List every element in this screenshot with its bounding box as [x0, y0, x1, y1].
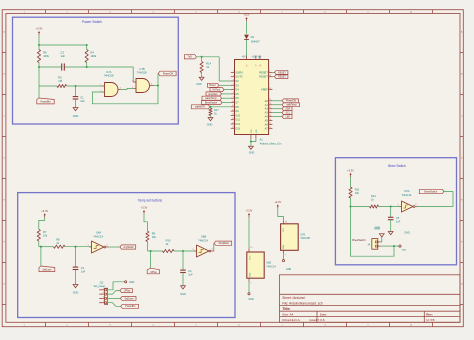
- svg-text:C1: C1: [80, 96, 84, 100]
- svg-text:23: 23: [269, 115, 271, 117]
- svg-text:Date:: Date:: [320, 312, 327, 316]
- svg-text:GND: GND: [249, 152, 255, 155]
- svg-text:D4: D4: [235, 88, 239, 92]
- svg-text:4: 4: [211, 248, 212, 250]
- svg-text:D1/TX: D1/TX: [235, 75, 243, 79]
- svg-text:waterTemp: waterTemp: [205, 97, 217, 100]
- svg-text:U7E: U7E: [300, 232, 305, 236]
- svg-text:5: 5: [233, 79, 234, 81]
- svg-text:14: 14: [285, 221, 287, 223]
- svg-text:D9: D9: [235, 109, 239, 113]
- svg-text:VCC: VCC: [283, 227, 285, 232]
- svg-text:SwDown: SwDown: [42, 270, 52, 272]
- svg-text:KiCad E.D.A.: KiCad E.D.A.: [282, 318, 300, 322]
- svg-text:GND: GND: [256, 129, 258, 134]
- svg-text:U6A: U6A: [96, 231, 101, 235]
- svg-text:R8: R8: [56, 238, 60, 242]
- svg-text:TxD: TxD: [187, 56, 192, 59]
- svg-text:Reset: Reset: [209, 84, 215, 87]
- svg-text:R4: R4: [90, 51, 94, 55]
- svg-text:+3.3V: +3.3V: [274, 200, 281, 204]
- svg-text:74HC14: 74HC14: [93, 234, 103, 238]
- svg-text:D0/RX: D0/RX: [235, 70, 243, 74]
- svg-text:26: 26: [269, 127, 271, 129]
- svg-text:24: 24: [269, 119, 271, 121]
- svg-text:stableON: stableON: [195, 106, 205, 109]
- svg-text:27: 27: [246, 65, 248, 67]
- svg-text:D2: D2: [235, 79, 239, 83]
- svg-text:30: 30: [260, 65, 262, 67]
- svg-text:1N4007: 1N4007: [251, 40, 261, 44]
- svg-text:R12: R12: [371, 194, 376, 198]
- svg-text:PowerON: PowerON: [286, 100, 296, 103]
- svg-text:GND: GND: [249, 272, 251, 277]
- svg-text:C4: C4: [188, 269, 192, 273]
- svg-text:1: 1: [87, 245, 88, 247]
- svg-text:Sheet: /Arduino/: Sheet: /Arduino/: [282, 296, 305, 300]
- svg-text:D5: D5: [235, 92, 239, 96]
- svg-text:AnySwDn: AnySwDn: [124, 246, 135, 249]
- svg-text:3: 3: [192, 249, 193, 251]
- svg-text:PowerBtn: PowerBtn: [125, 305, 136, 308]
- svg-text:15: 15: [232, 122, 234, 124]
- svg-text:20: 20: [269, 103, 271, 105]
- svg-text:Power Switch: Power Switch: [82, 20, 102, 24]
- svg-text:74HC08: 74HC08: [137, 71, 147, 75]
- svg-text:kicad 7.0.8: kicad 7.0.8: [310, 318, 325, 322]
- svg-text:Title:: Title:: [282, 307, 290, 311]
- svg-text:13: 13: [232, 114, 234, 116]
- svg-text:D8: D8: [235, 105, 239, 109]
- svg-text:GND: GND: [207, 124, 213, 127]
- svg-text:GND: GND: [129, 281, 135, 284]
- svg-text:R10: R10: [166, 239, 171, 243]
- svg-text:RESET: RESET: [259, 70, 268, 74]
- svg-text:RESET: RESET: [278, 72, 286, 74]
- svg-text:R7: R7: [43, 230, 47, 234]
- svg-text:BrewSwitch: BrewSwitch: [425, 190, 438, 193]
- svg-text:R6: R6: [43, 51, 47, 55]
- svg-text:3: 3: [269, 71, 270, 73]
- svg-text:D3: D3: [235, 83, 239, 87]
- svg-text:74HC08: 74HC08: [300, 236, 310, 240]
- svg-text:100k: 100k: [43, 54, 49, 58]
- svg-text:7: 7: [250, 282, 251, 284]
- svg-text:21: 21: [269, 107, 271, 109]
- svg-text:+5V: +5V: [241, 57, 246, 59]
- svg-text:100k: 100k: [90, 54, 96, 58]
- svg-text:Brew Switch: Brew Switch: [388, 164, 406, 168]
- svg-text:PowerBtn: PowerBtn: [40, 101, 51, 104]
- svg-text:Id: 5/5: Id: 5/5: [426, 318, 435, 322]
- svg-text:safeTemp: safeTemp: [287, 105, 298, 107]
- svg-text:4: 4: [103, 301, 104, 303]
- svg-text:8: 8: [233, 92, 234, 94]
- svg-text:1uF: 1uF: [396, 220, 401, 224]
- svg-text:+3V3 VIN: +3V3 VIN: [251, 57, 261, 59]
- svg-text:3: 3: [103, 296, 104, 298]
- svg-text:6: 6: [151, 84, 152, 86]
- svg-text:16: 16: [232, 127, 234, 129]
- svg-text:GND: GND: [404, 231, 410, 234]
- svg-text:3: 3: [120, 88, 121, 90]
- svg-text:DHTout: DHTout: [212, 88, 220, 91]
- svg-text:D11: D11: [235, 118, 240, 122]
- svg-text:1uF: 1uF: [81, 270, 86, 274]
- svg-text:U6C: U6C: [404, 189, 409, 193]
- svg-text:12: 12: [232, 109, 234, 111]
- svg-text:14: 14: [250, 247, 252, 249]
- svg-text:D10: D10: [235, 113, 240, 117]
- svg-text:tempSen: tempSen: [208, 93, 218, 96]
- svg-text:PowerON: PowerON: [163, 72, 174, 75]
- svg-text:28: 28: [269, 75, 271, 77]
- svg-text:18: 18: [269, 88, 271, 90]
- svg-text:74HC14: 74HC14: [266, 264, 276, 268]
- svg-text:10: 10: [232, 101, 234, 103]
- svg-text:U7A: U7A: [106, 70, 111, 74]
- svg-text:Rev:: Rev:: [426, 312, 433, 316]
- svg-text:+3.3V: +3.3V: [347, 168, 354, 172]
- svg-text:GND: GND: [180, 293, 186, 296]
- svg-text:+3.3V: +3.3V: [141, 206, 148, 210]
- svg-text:GND: GND: [248, 298, 254, 301]
- svg-text:D7: D7: [235, 101, 239, 105]
- svg-text:R5: R5: [58, 76, 62, 80]
- svg-text:D6: D6: [235, 96, 239, 100]
- svg-text:22: 22: [269, 111, 271, 113]
- svg-text:6: 6: [415, 204, 416, 206]
- svg-text:14: 14: [232, 118, 234, 120]
- svg-text:RESET: RESET: [259, 75, 268, 79]
- svg-text:SCL: SCL: [286, 113, 291, 115]
- svg-text:+3.3V: +3.3V: [41, 209, 48, 213]
- svg-text:R17: R17: [214, 108, 219, 112]
- svg-text:RESET: RESET: [278, 77, 286, 79]
- svg-text:7: 7: [285, 255, 286, 257]
- svg-text:+12V: +12V: [243, 13, 249, 17]
- svg-text:GND: GND: [73, 292, 79, 295]
- svg-text:UPSw: UPSw: [150, 272, 157, 274]
- svg-text:J12: J12: [99, 280, 104, 284]
- svg-text:74HC08: 74HC08: [104, 74, 114, 78]
- svg-text:SwUpDeb: SwUpDeb: [219, 243, 230, 245]
- svg-text:GND: GND: [283, 244, 285, 249]
- svg-text:R14: R14: [206, 62, 211, 66]
- svg-text:C3: C3: [60, 51, 64, 55]
- svg-text:BrewSwitch: BrewSwitch: [205, 101, 218, 104]
- svg-text:5: 5: [397, 205, 398, 207]
- svg-text:74HC14: 74HC14: [198, 238, 208, 242]
- svg-text:D2: D2: [251, 35, 255, 39]
- svg-text:GND: GND: [251, 129, 253, 134]
- svg-text:SDA: SDA: [285, 108, 290, 111]
- svg-text:D12: D12: [235, 122, 240, 126]
- svg-text:SwDown: SwDown: [124, 298, 134, 300]
- svg-text:1uF: 1uF: [80, 99, 85, 103]
- svg-text:GND: GND: [375, 227, 381, 230]
- svg-text:+3.3V: +3.3V: [246, 209, 253, 213]
- svg-text:1: 1: [100, 84, 101, 86]
- svg-text:GND: GND: [286, 268, 292, 271]
- svg-text:9: 9: [233, 97, 234, 99]
- svg-text:U7B: U7B: [139, 67, 144, 71]
- svg-text:4: 4: [132, 80, 133, 82]
- svg-text:U6E: U6E: [266, 261, 271, 265]
- svg-text:R9: R9: [152, 232, 156, 236]
- svg-text:AREF: AREF: [261, 88, 268, 92]
- svg-text:1uF: 1uF: [188, 273, 193, 277]
- svg-text:10k: 10k: [43, 234, 48, 238]
- svg-text:17: 17: [256, 65, 258, 67]
- svg-text:D13: D13: [235, 126, 240, 130]
- svg-text:C2: C2: [81, 266, 85, 270]
- svg-text:11: 11: [232, 105, 234, 107]
- svg-text:+3.3V: +3.3V: [36, 27, 43, 31]
- svg-text:Temp set buttons: Temp set buttons: [138, 198, 163, 202]
- svg-text:Size: A4: Size: A4: [282, 312, 293, 316]
- svg-text:VCC: VCC: [249, 255, 251, 260]
- svg-text:U6B: U6B: [201, 235, 206, 239]
- svg-text:R11: R11: [355, 188, 360, 192]
- svg-text:6: 6: [233, 84, 234, 86]
- svg-text:7: 7: [233, 88, 234, 90]
- svg-text:LED: LED: [286, 116, 291, 118]
- svg-text:2: 2: [103, 292, 104, 294]
- svg-text:10k: 10k: [355, 191, 360, 195]
- svg-text:2: 2: [233, 71, 234, 73]
- svg-text:BrewSwitch: BrewSwitch: [352, 239, 366, 242]
- svg-text:1uF: 1uF: [60, 54, 65, 58]
- svg-text:2: 2: [106, 244, 107, 246]
- svg-text:1: 1: [103, 288, 104, 290]
- svg-text:File: ArduinoNano.kicad_sch: File: ArduinoNano.kicad_sch: [282, 301, 323, 305]
- svg-text:19: 19: [269, 99, 271, 101]
- svg-text:GND: GND: [196, 83, 202, 86]
- svg-text:Arduino_Nano_v3.x: Arduino_Nano_v3.x: [260, 143, 283, 146]
- svg-text:10k: 10k: [152, 235, 157, 239]
- svg-text:GND: GND: [73, 115, 79, 118]
- svg-text:1: 1: [233, 75, 234, 77]
- svg-text:UPSw: UPSw: [124, 290, 131, 292]
- svg-text:74HC14: 74HC14: [402, 193, 412, 197]
- svg-text:25: 25: [269, 123, 271, 125]
- svg-text:C5: C5: [396, 216, 400, 220]
